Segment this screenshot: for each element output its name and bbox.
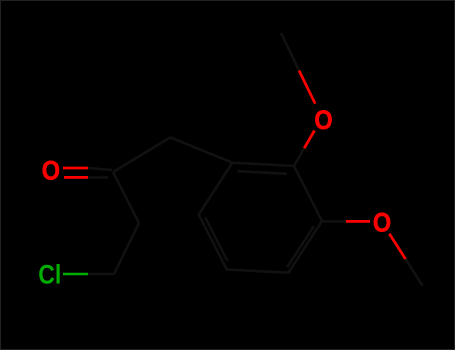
- ring inner double bond C4-C5: [287, 226, 314, 267]
- bond carbonyl C down to CH2 apex: [113, 172, 139, 223]
- top methoxy: ring C3 to O red half: [304, 131, 314, 149]
- C=O double bond lower line red half: [64, 176, 88, 179]
- bond CH2 apex down to CH2Cl: [114, 223, 139, 274]
- ring inner double bond C2-C3: [238, 171, 288, 174]
- top methoxy: O to CH3 dark half: [281, 33, 299, 71]
- bond CH2 to Cl dark half: [88, 273, 114, 276]
- right methoxy: ring C4 to O red half: [346, 220, 370, 223]
- svg-text:O: O: [42, 156, 60, 186]
- bond CH2 to Cl green half: [63, 273, 88, 276]
- bond benzylic apex CH2 to ring C2: [170, 137, 232, 162]
- top methoxy: O to CH3 red half: [299, 71, 315, 104]
- top methoxy: ring C3 to O dark half: [294, 148, 304, 166]
- C=O double bond upper line dark half: [88, 168, 112, 170]
- ring inner double bond C6-C1: [205, 217, 227, 261]
- benzene ring outline: [199, 163, 322, 273]
- bond carbonyl C to benzylic apex CH2: [113, 137, 170, 172]
- C=O double bond upper line red half: [63, 167, 88, 170]
- right methoxy: ring C4 to O dark half: [322, 220, 346, 223]
- right methoxy: O to CH3 dark half: [406, 259, 423, 286]
- svg-text:O: O: [314, 106, 332, 136]
- svg-text:Cl: Cl: [38, 261, 61, 290]
- svg-text:O: O: [373, 208, 391, 238]
- C=O double bond lower line dark half: [88, 176, 108, 179]
- right methoxy: O to CH3 red half: [389, 234, 405, 259]
